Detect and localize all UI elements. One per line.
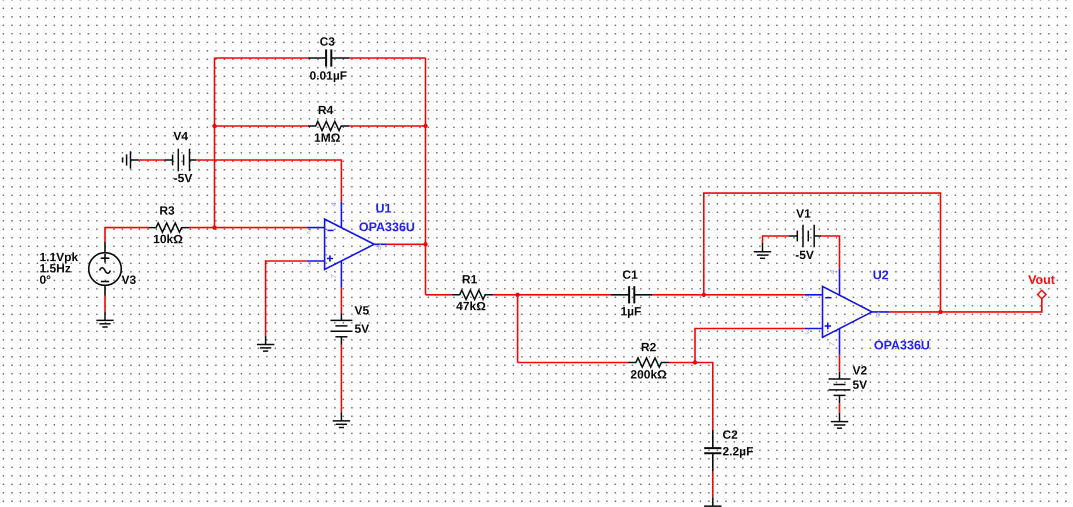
svg-text:0.01µF: 0.01µF [309, 69, 347, 83]
svg-text:Vout: Vout [1028, 273, 1056, 287]
svg-text:1MΩ: 1MΩ [314, 131, 341, 145]
wire: C3 top row left segment [215, 57, 309, 59]
svg-text:V1: V1 [796, 207, 811, 221]
svg-text:C1: C1 [622, 268, 638, 282]
node Vout output connector [1038, 290, 1047, 299]
svg-text:200kΩ: 200kΩ [630, 367, 667, 381]
capacitor C2 [704, 430, 721, 471]
wire: right feedback vertical (C3 row down to R1 row) [425, 58, 427, 295]
svg-text:V5: V5 [354, 304, 369, 318]
capacitor C1 [611, 286, 652, 303]
svg-text:-5V: -5V [795, 248, 814, 262]
AC source V3 (1.1Vpk 1.5Hz) [89, 242, 122, 296]
junction: R1 output node [515, 293, 519, 297]
svg-text:5V: 5V [354, 322, 369, 336]
wire: R1 to C1 segment [493, 294, 611, 296]
svg-text:V4: V4 [173, 129, 188, 143]
wire: U1 pin 7 to V5 [340, 288, 342, 313]
wire: node A vertical (R1/R2 junction down) [517, 295, 519, 363]
battery V1 (-5V) [789, 225, 821, 248]
wire: U2 feedback loop [704, 193, 941, 312]
ground left of V4 [123, 151, 139, 168]
svg-text:10kΩ: 10kΩ [153, 232, 183, 246]
ground below V2 [831, 413, 848, 428]
battery V4 (-5V) [164, 149, 196, 172]
op-amp U2 OPA336U [805, 269, 890, 355]
wire: U2 pin 7 to V2 [839, 355, 841, 372]
capacitor C3 [308, 49, 349, 66]
wire: V2 to ground [839, 403, 841, 413]
wire: C2 bottom to ground [712, 471, 714, 497]
wire: U1 non-inverting input to ground [266, 261, 307, 336]
wire: R1 row left segment [426, 294, 452, 296]
svg-text:R1: R1 [462, 272, 478, 286]
ground below V3 [96, 312, 113, 327]
svg-text:V3: V3 [121, 273, 136, 287]
wire: R2 right segment to C2 [669, 363, 712, 431]
wire: R3 to U1 inverting input [190, 227, 307, 229]
svg-text:2.2µF: 2.2µF [722, 444, 753, 458]
svg-text:2: 2 [804, 294, 810, 303]
junction: U2 feedback and inverting input [702, 293, 706, 297]
svg-text:OPA336U: OPA336U [359, 220, 415, 234]
wire: C3 top row right segment [349, 57, 425, 59]
wire: left feedback vertical (C3/R4 node to inverting input) [214, 58, 216, 228]
svg-text:C3: C3 [320, 35, 336, 49]
svg-text:5V: 5V [852, 378, 867, 392]
svg-text:4: 4 [329, 203, 338, 207]
svg-text:U1: U1 [376, 201, 392, 215]
resistor R3 [148, 223, 189, 232]
ground for U1 non-inverting input [257, 336, 274, 351]
svg-text:-5V: -5V [174, 171, 193, 185]
wire: V1 battery left to ground [763, 236, 790, 243]
junction: R2 and U2 non-inverting input [693, 360, 697, 364]
wire: V3 top lead to R3 [105, 228, 148, 242]
svg-text:U2: U2 [873, 268, 889, 282]
svg-text:V2: V2 [852, 364, 867, 378]
resistor R2 [628, 358, 669, 367]
svg-text:2: 2 [306, 226, 312, 235]
ground below C2 [704, 497, 721, 507]
junction: left vertical and R4 left [212, 124, 216, 128]
wire: R2 left segment [518, 362, 628, 364]
wire: V5 to ground [340, 345, 342, 413]
svg-text:0°: 0° [39, 273, 51, 287]
svg-text:47kΩ: 47kΩ [456, 299, 486, 313]
junction: left vertical and inverting input node [212, 225, 216, 229]
wire: V3 bottom lead to ground [104, 296, 106, 312]
junction: U2 output and feedback [938, 310, 942, 314]
svg-text:R4: R4 [318, 103, 334, 117]
resistor R4 [308, 121, 349, 130]
wire: U1 output to feedback node [387, 243, 426, 245]
wire: R4 right segment [349, 125, 425, 127]
svg-text:4: 4 [827, 270, 836, 274]
ground below V5 [333, 412, 350, 427]
svg-text:1µF: 1µF [620, 304, 641, 318]
junction: right vertical and U1 output [423, 242, 427, 246]
wire: V4 battery to U1 pin 4 [196, 160, 341, 202]
battery V5 (5V) [330, 313, 352, 345]
wire: R4 left segment [215, 125, 308, 127]
svg-text:C2: C2 [722, 428, 738, 442]
svg-text:OPA336U: OPA336U [874, 338, 930, 352]
ground below V1 left [754, 243, 771, 258]
wire: U2 non-inverting input segment [695, 329, 805, 363]
op-amp U1 OPA336U [307, 202, 387, 288]
wire: V4 ground to battery [139, 159, 165, 161]
resistor R1 [452, 290, 493, 299]
battery V2 (5V) [829, 372, 851, 404]
svg-text:R2: R2 [641, 340, 657, 354]
wire: U2 output to Vout [889, 299, 1042, 312]
wire: C1 to U2 inverting input [652, 294, 804, 296]
wire: V1 battery to U2 pin 4 [821, 236, 840, 269]
junction: right vertical and R4 right [423, 124, 427, 128]
svg-text:R3: R3 [159, 204, 175, 218]
